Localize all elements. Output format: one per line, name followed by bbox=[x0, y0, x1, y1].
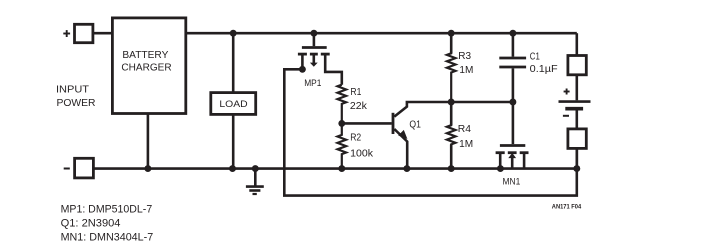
svg-text:R1: R1 bbox=[350, 87, 361, 98]
svg-text:C1: C1 bbox=[530, 52, 540, 63]
svg-text:MP1: DMP510DL-7: MP1: DMP510DL-7 bbox=[61, 204, 153, 216]
svg-text:R4: R4 bbox=[458, 124, 472, 135]
svg-text:AN171 F04: AN171 F04 bbox=[552, 204, 582, 211]
svg-text:22k: 22k bbox=[350, 101, 368, 112]
svg-text:1M: 1M bbox=[459, 139, 473, 150]
svg-text:MP1: MP1 bbox=[304, 78, 321, 89]
svg-text:Q1: 2N3904: Q1: 2N3904 bbox=[61, 218, 121, 230]
svg-text:1M: 1M bbox=[459, 65, 473, 76]
svg-text:POWER: POWER bbox=[57, 98, 96, 109]
svg-text:Q1: Q1 bbox=[409, 120, 421, 131]
svg-text:MN1: DMN3404L-7: MN1: DMN3404L-7 bbox=[61, 231, 154, 243]
svg-text:MN1: MN1 bbox=[503, 176, 521, 187]
svg-text:INPUT: INPUT bbox=[56, 84, 89, 95]
svg-text:0.1µF: 0.1µF bbox=[530, 64, 558, 75]
svg-text:BATTERY: BATTERY bbox=[122, 50, 169, 61]
svg-text:CHARGER: CHARGER bbox=[121, 63, 171, 74]
svg-text:100k: 100k bbox=[350, 149, 374, 160]
svg-text:LOAD: LOAD bbox=[219, 99, 247, 110]
svg-text:R3: R3 bbox=[458, 51, 471, 62]
svg-text:R2: R2 bbox=[350, 133, 361, 144]
